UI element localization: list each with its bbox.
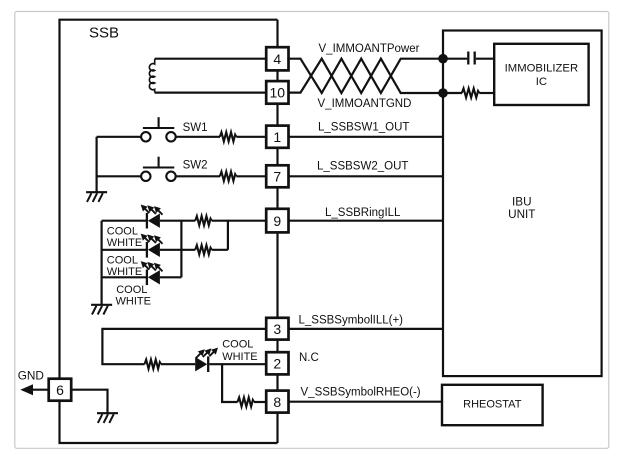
label COOL WHITE D3: [116, 284, 151, 308]
svg-text:COOL: COOL: [116, 284, 147, 296]
wire R3 to pin 9: [212, 220, 267, 222]
wire SW common vertical: [95, 137, 97, 192]
connector pin column wire: [276, 20, 278, 443]
ground chassis near pin 6: [97, 413, 118, 423]
wire branch down to R7: [222, 364, 238, 402]
ground SW common: [86, 192, 107, 202]
connector pin 8: [266, 391, 288, 413]
label SW1: [183, 122, 208, 134]
connector pin 7: [266, 165, 288, 187]
RHEOSTAT box: [442, 385, 543, 425]
wire R1 to pin 1: [236, 136, 266, 138]
wire GND arrow to pin 6: [32, 389, 49, 391]
GND arrow: [20, 384, 33, 395]
wire coil to pin 4: [155, 58, 267, 60]
wire LED array left vertical: [100, 221, 102, 305]
ground LED array: [91, 305, 112, 315]
svg-text:COOL: COOL: [107, 254, 138, 266]
wire row1 left: [102, 220, 147, 222]
SSB module outline box: [60, 20, 278, 443]
wire to SW2: [97, 175, 141, 177]
wire pin 9 to IBU net L_SSBRingILL: [289, 220, 444, 222]
svg-text:COOL: COOL: [222, 339, 253, 351]
label SW2: [183, 159, 208, 171]
IBU UNIT box U2: [443, 31, 602, 377]
net V_IMMOANTGND: [318, 98, 412, 110]
junction node pin10/IMMOBILIZER: [438, 88, 448, 98]
resistor R5: [462, 88, 480, 97]
wire SW1 to R1: [176, 136, 220, 138]
svg-text:SSB: SSB: [89, 25, 119, 42]
svg-text:RHEOSTAT: RHEOSTAT: [463, 398, 522, 410]
connector pin 3: [266, 318, 288, 340]
svg-text:COOL: COOL: [107, 226, 138, 238]
svg-text:WHITE: WHITE: [116, 295, 151, 307]
net L_SSBSW1_OUT: [318, 122, 409, 134]
wire row3 left: [102, 276, 147, 278]
resistor R2: [220, 172, 237, 181]
connector pin 2: [266, 352, 288, 374]
wire C1 to IMMOBILIZER IC: [476, 58, 494, 60]
switch SW1: [141, 117, 176, 141]
svg-text:SW1: SW1: [183, 122, 208, 134]
svg-text:UNIT: UNIT: [508, 208, 535, 221]
net L_SSBRingILL: [325, 207, 401, 219]
net V_IMMOANTPower: [319, 43, 420, 55]
svg-text:4: 4: [273, 51, 281, 67]
connector pin 4: [266, 47, 288, 70]
svg-text:GND: GND: [18, 369, 44, 383]
IMMOBILIZER IC box U1: [494, 44, 588, 105]
svg-text:WHITE: WHITE: [107, 266, 142, 278]
svg-text:V_IMMOANTGND: V_IMMOANTGND: [318, 98, 412, 110]
wire SW2 to R2: [176, 175, 220, 177]
net L_SSBSymbolILL(+): [299, 315, 404, 327]
connector pin 9: [266, 209, 288, 233]
wire to SW1: [97, 136, 141, 138]
wire R5 to IMMOBILIZER IC: [479, 92, 494, 94]
capacitor C1: [468, 52, 474, 65]
label COOL WHITE D2: [107, 254, 142, 278]
label GND: [18, 369, 44, 383]
svg-text:L_SSBSymbolILL(+): L_SSBSymbolILL(+): [299, 315, 404, 327]
wire coil to pin 10: [155, 91, 267, 93]
svg-text:L_SSBSW1_OUT: L_SSBSW1_OUT: [318, 122, 409, 134]
svg-text:V_SSBSymbolRHEO(-): V_SSBSymbolRHEO(-): [301, 387, 421, 399]
wire junction to C1: [443, 58, 467, 60]
svg-text:1: 1: [273, 129, 281, 145]
wire junction to R5: [443, 92, 462, 94]
wire D4 to pin 2: [209, 363, 266, 365]
LED D3: [141, 261, 163, 285]
LED D2: [141, 234, 163, 258]
twisted pair wire B (pin 10 to IBU): [289, 59, 444, 93]
twisted pair wire A (pin 4 to IBU): [289, 59, 444, 93]
switch SW2: [141, 157, 176, 181]
resistor R1: [220, 132, 237, 141]
wire R6 to LED D4: [161, 363, 195, 365]
svg-text:V_IMMOANTPower: V_IMMOANTPower: [319, 43, 420, 55]
label COOL WHITE D4: [222, 339, 257, 363]
wire pin 6 to ground: [71, 390, 107, 414]
connector pin 6: [49, 379, 71, 401]
svg-text:WHITE: WHITE: [222, 351, 257, 363]
svg-text:L_SSBRingILL: L_SSBRingILL: [325, 207, 401, 219]
svg-text:9: 9: [273, 213, 281, 229]
net V_SSBSymbolRHEO(-): [301, 387, 421, 399]
junction node pin4/IMMOBILIZER: [438, 54, 448, 64]
wire row1 LED to R3: [160, 220, 195, 222]
wire row3 LED to tie: [160, 276, 182, 278]
svg-text:WHITE: WHITE: [107, 237, 142, 249]
inductor L1 immobilizer antenna coil: [149, 59, 154, 93]
resistor R6: [145, 360, 162, 369]
resistor R7: [238, 397, 255, 406]
wire R2 to pin 7: [236, 175, 266, 177]
label SSB: [89, 25, 119, 42]
resistor R4: [195, 245, 212, 254]
LED D4: [195, 348, 218, 372]
resistor R3: [195, 216, 212, 225]
svg-text:L_SSBSW2_OUT: L_SSBSW2_OUT: [317, 161, 408, 173]
label N.C: [299, 352, 319, 364]
svg-text:3: 3: [273, 321, 281, 337]
wire LED cathode tie vertical: [180, 221, 182, 278]
svg-text:6: 6: [56, 382, 64, 398]
wire R7 to pin 8: [254, 401, 266, 403]
label COOL WHITE D1: [107, 226, 142, 250]
svg-text:10: 10: [270, 85, 286, 101]
wire R4 to tie: [212, 249, 228, 251]
svg-text:IC: IC: [536, 76, 547, 88]
svg-text:IBU: IBU: [512, 196, 531, 209]
net L_SSBSW2_OUT: [317, 161, 408, 173]
wire pin 3 to IBU net L_SSBSymbolILL: [289, 328, 444, 330]
wire row2 left: [102, 249, 147, 251]
svg-text:N.C: N.C: [299, 352, 319, 364]
svg-text:8: 8: [273, 394, 281, 410]
wire pin 3 loop left: [102, 329, 266, 364]
svg-text:IMMOBILIZER: IMMOBILIZER: [505, 63, 578, 75]
wire pin 7 to IBU net L_SSBSW2_OUT: [289, 175, 444, 177]
wire pin 1 to IBU net L_SSBSW1_OUT: [289, 136, 444, 138]
wire row2 LED to R4: [160, 249, 195, 251]
wire pin 8 to RHEOSTAT net V_SSBSymbolRHEO: [289, 401, 443, 403]
svg-text:SW2: SW2: [183, 159, 208, 171]
connector pin 1: [266, 126, 288, 148]
connector pin 10: [266, 81, 288, 104]
svg-text:7: 7: [273, 169, 281, 185]
LED D1: [141, 205, 163, 229]
wire resistor tie vertical: [227, 221, 229, 250]
svg-text:2: 2: [273, 356, 281, 372]
